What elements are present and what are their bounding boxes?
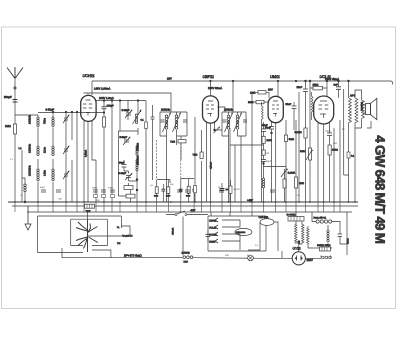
capacitor 50nF af: [292, 106, 297, 109]
ground arrow: [25, 206, 31, 230]
coil L2 130kHz: [37, 146, 39, 156]
svg-text:1MΩ: 1MΩ: [5, 125, 11, 128]
svg-text:150Ω: 150Ω: [332, 149, 338, 152]
trimmer AGC: [214, 127, 220, 133]
svg-text:2MΩ: 2MΩ: [248, 101, 253, 104]
wire osc column: [103, 101, 105, 203]
coil osc 1900kHz: [136, 160, 138, 171]
svg-text:3MΩ: 3MΩ: [289, 138, 294, 141]
IF transformer T2 frame: [222, 112, 246, 136]
resistor box af2: [262, 150, 265, 155]
svg-text:0,1MΩ: 0,1MΩ: [295, 131, 302, 134]
svg-text:214c: 214c: [44, 147, 47, 153]
wire right col: [295, 120, 297, 202]
trimmer IF2a: [223, 120, 227, 122]
wire HT rail: [92, 81, 345, 95]
svg-text:1MΩ: 1MΩ: [250, 91, 255, 94]
wire osc verticals: [112, 101, 138, 203]
resistor 1MΩ det: [258, 91, 266, 94]
wire 8nF column: [338, 81, 340, 98]
resistor 2MΩ af: [284, 135, 287, 142]
tube UM11 electrodes: [272, 101, 279, 117]
thermistor U1658: [260, 219, 274, 226]
tube UBF11 electrodes: [206, 101, 214, 117]
svg-text:1,5MHy: 1,5MHy: [182, 252, 191, 255]
wire UM11 top: [277, 81, 279, 97]
tube UCL11: [314, 96, 334, 124]
capacitor 50pF bottom: [124, 186, 133, 190]
svg-text:TM: TM: [117, 242, 120, 245]
heater UCL11: [215, 225, 218, 229]
node UBF11: [214, 129, 216, 131]
svg-text:D09: D09: [184, 261, 189, 264]
resistor vol low: [283, 179, 286, 188]
capacitor 50pF osc: [122, 165, 127, 168]
resistor 1MΩ right: [294, 177, 297, 188]
wire UBF11 pins: [207, 107, 226, 202]
coil IF1 secondary: [173, 113, 181, 132]
wire HT to right hook: [345, 81, 393, 85]
node antenna junction: [14, 87, 16, 89]
capacitor 25nF af: [303, 89, 308, 92]
trimmer Ct2: [63, 146, 69, 154]
wire heater internals: [222, 220, 278, 251]
wire coil column B: [52, 112, 54, 202]
node dots input: [52, 111, 54, 113]
capacitor row c3: [192, 189, 196, 191]
wire osc box frame: [118, 131, 138, 196]
svg-text:30Ω: 30Ω: [225, 254, 229, 257]
resistor zig UM left: [262, 106, 264, 119]
resistor mains A: [307, 228, 310, 244]
wire UCL11 pins: [318, 122, 330, 202]
svg-text:20V: 20V: [268, 89, 273, 92]
wire mains bottom: [305, 256, 330, 259]
trimmer 3-30pF: [125, 174, 132, 181]
wire osc internal: [124, 143, 137, 202]
svg-text:5000: 5000: [92, 187, 98, 190]
svg-text:200V 62mA: 200V 62mA: [208, 87, 222, 90]
value labels scatter: [10, 128, 345, 257]
winding field coil: [362, 100, 365, 119]
tube UBF11: [203, 96, 219, 123]
svg-text:UBF11: UBF11: [209, 220, 217, 223]
capacitor heater in: [205, 234, 210, 236]
svg-text:1MΩ: 1MΩ: [299, 182, 304, 185]
svg-text:-12V: -12V: [190, 209, 196, 212]
wire NF feedback: [344, 89, 349, 175]
svg-text:148c: 148c: [44, 170, 47, 176]
wire bus ground 2: [12, 205, 358, 207]
node af: [263, 163, 265, 165]
svg-text:100kΩ 280Ω: 100kΩ 280Ω: [317, 244, 331, 247]
wire UCH11 anode to IF1: [84, 93, 172, 112]
svg-text:145V 2,85mA: 145V 2,85mA: [94, 88, 110, 91]
capacitor 25nF out: [327, 133, 332, 136]
tube UM11: [268, 96, 283, 122]
tube UCH11: [81, 95, 96, 121]
choke 1.5MHy: [183, 256, 193, 259]
svg-text:240kHz: 240kHz: [29, 114, 32, 124]
wire bus crossings: [15, 202, 340, 212]
resistor antenna: [13, 124, 16, 134]
resistor 0.1MΩ af: [304, 128, 307, 138]
capacitor 100pF: [102, 107, 107, 109]
resistor row box3: [187, 186, 190, 193]
svg-text:UCH11: UCH11: [83, 74, 95, 78]
svg-text:50nF: 50nF: [265, 127, 271, 130]
antenna: [7, 67, 23, 79]
node bus dots: [14, 201, 356, 203]
capacitor col348: [347, 152, 350, 158]
wire out bias: [330, 120, 341, 202]
svg-text:UCL11: UCL11: [320, 75, 332, 79]
wire UM11 pins: [272, 121, 276, 202]
svg-text:5000: 5000: [154, 195, 158, 198]
svg-text:5000: 5000: [108, 187, 114, 190]
svg-text:750c: 750c: [44, 118, 47, 124]
svg-text:4,5mA: 4,5mA: [210, 162, 213, 169]
svg-text:Feld 5kΩ: Feld 5kΩ: [361, 101, 364, 111]
resistor 1MΩ af: [262, 136, 265, 143]
rectifier UY11: [292, 252, 305, 265]
coil L1 240kHz: [37, 117, 39, 127]
svg-text:100pF: 100pF: [107, 105, 115, 108]
trimmer IF2b: [243, 120, 247, 122]
wire IF2 connections: [222, 81, 246, 202]
capacitor af3: [261, 160, 266, 162]
wire coil column A: [37, 127, 39, 202]
wire bracket under speaker: [367, 121, 371, 128]
svg-text:130kHz: 130kHz: [29, 143, 32, 153]
capacitor col152: [151, 117, 155, 119]
wire band column: [72, 112, 77, 202]
svg-text:50nF: 50nF: [286, 103, 292, 106]
wire det link: [235, 145, 241, 202]
svg-text:3-30pF: 3-30pF: [119, 172, 127, 175]
resistor row box2: [167, 187, 170, 194]
wire switch link dashed: [157, 140, 181, 180]
wire bus ground 1: [8, 201, 358, 203]
svg-text:25nF: 25nF: [326, 130, 332, 133]
svg-text:UBF11: UBF11: [203, 75, 215, 79]
wire column La: [21, 150, 23, 202]
svg-text:8nF: 8nF: [334, 84, 339, 87]
junction blob power: [298, 241, 301, 244]
svg-text:LW: LW: [150, 184, 153, 187]
winding secondary: [355, 98, 358, 123]
svg-text:UCH11: UCH11: [209, 234, 217, 237]
coil mains C: [322, 256, 332, 259]
resistor out bias: [328, 145, 331, 155]
svg-text:Netz Ø3+Ω: Netz Ø3+Ω: [314, 217, 327, 220]
capacitor row c1: [162, 189, 166, 191]
svg-text:UM11: UM11: [209, 241, 216, 244]
wire mains net: [308, 212, 347, 255]
rectifier electrodes: [297, 256, 302, 261]
node osc dots: [103, 112, 105, 114]
resistor dropper B: [302, 224, 305, 243]
coil IF2 secondary: [234, 113, 242, 132]
svg-text:La: La: [19, 147, 22, 150]
svg-text:0,1: 0,1: [226, 188, 229, 191]
wire speaker link: [363, 105, 366, 113]
svg-text:UCL11: UCL11: [209, 227, 217, 230]
resistor TM2 on bus: [85, 204, 95, 208]
resistor dropper A: [295, 224, 298, 243]
wire dial links: [62, 212, 130, 258]
capacitor det left: [220, 189, 225, 191]
heater UCH11: [215, 232, 218, 236]
coil IF2 primary: [225, 113, 233, 132]
svg-text:TM2: TM2: [86, 210, 92, 213]
wire grid line input: [38, 112, 104, 114]
svg-text:50pF: 50pF: [266, 160, 272, 163]
wire power column: [296, 212, 302, 252]
trimmer IF1b: [183, 120, 187, 122]
svg-text:25nF: 25nF: [297, 86, 303, 89]
wire screen line 100V: [96, 100, 146, 102]
svg-text:2F+4T3 8mΩ: 2F+4T3 8mΩ: [124, 254, 142, 258]
wire af column: [230, 122, 264, 202]
coil mains B: [327, 230, 329, 242]
wire to input coils: [15, 115, 38, 117]
svg-text:15V: 15V: [167, 78, 172, 81]
wire detector links: [252, 92, 269, 202]
switch mains: [175, 214, 177, 216]
svg-text:100Ω: 100Ω: [347, 238, 350, 244]
wire switch down: [182, 217, 184, 256]
svg-text:0,5mA: 0,5mA: [85, 149, 88, 157]
node UM: [271, 132, 273, 134]
svg-text:0,1MΩ: 0,1MΩ: [288, 172, 296, 175]
coil osc variable: [133, 110, 142, 124]
svg-text:5000: 5000: [186, 195, 190, 198]
wire detector column: [195, 117, 202, 202]
wire antenna lead-in: [14, 79, 16, 202]
coil osc 750kHz: [136, 146, 138, 155]
wire 22k links: [310, 81, 327, 96]
coil af choke: [262, 178, 264, 188]
resistor zig UCL grid: [311, 96, 313, 112]
svg-text:400mA: 400mA: [172, 227, 175, 235]
svg-text:UM11: UM11: [270, 75, 280, 79]
node left: [24, 201, 26, 203]
heater block frame: [208, 216, 266, 251]
svg-text:1MΩ: 1MΩ: [266, 139, 271, 142]
resistor col146: [145, 122, 148, 129]
svg-text:5-50pF: 5-50pF: [120, 136, 128, 139]
svg-text:hr gut 14: hr gut 14: [123, 235, 133, 238]
capacitor 50nF af1: [261, 129, 266, 132]
wire UCH11 pins: [84, 120, 96, 202]
wire UBF11 anode: [210, 81, 212, 96]
capacitor 8nF: [336, 87, 341, 90]
trimmer Ct3: [63, 171, 69, 179]
wire rectifier left: [262, 251, 292, 258]
capacitor 50nF UM: [269, 127, 274, 130]
svg-text:U1560600: U1560600: [236, 231, 246, 234]
tube UCL11 electrodes: [319, 101, 329, 118]
mains choke: [316, 220, 332, 223]
wire transformer top: [349, 81, 362, 202]
svg-text:0,1MΩ: 0,1MΩ: [234, 188, 241, 191]
resistor box det left: [229, 186, 232, 193]
capacitor boxes above bus: [94, 195, 98, 198]
svg-text:MW: MW: [170, 183, 174, 186]
trimmer Ct1: [63, 115, 69, 123]
node osc2: [136, 179, 138, 181]
winding primary: [349, 98, 352, 123]
resistor 2MΩ det: [256, 100, 264, 103]
resistor TM2: [178, 140, 186, 143]
wire heater feeds: [211, 212, 252, 216]
svg-text:TM2: TM2: [170, 141, 176, 144]
trimmer 5-50pF: [125, 110, 132, 118]
wire IF1 down: [160, 112, 187, 202]
wire vol column: [264, 120, 287, 202]
dial lamp: [248, 255, 254, 261]
svg-text:UY11: UY11: [293, 247, 301, 251]
resistor box col195: [194, 186, 197, 193]
capacitor row above bus: [41, 190, 275, 192]
coil Lg left: [24, 184, 26, 192]
svg-text:22kΩ: 22kΩ: [313, 83, 319, 86]
svg-text:1MΩ: 1MΩ: [300, 150, 305, 153]
IF transformer T1 frame: [160, 112, 187, 136]
resistor Rosc: [102, 117, 105, 127]
node af2: [305, 80, 307, 82]
svg-text:50µF: 50µF: [40, 186, 46, 189]
svg-text:200kHz: 200kHz: [224, 109, 234, 112]
dial pointer butterfly: [76, 220, 98, 252]
resistor 100k mains: [320, 247, 331, 251]
svg-text:U16 5VA: U16 5VA: [259, 216, 269, 219]
barretter oval: [235, 228, 252, 235]
speaker: [366, 98, 377, 119]
svg-text:200kHz: 200kHz: [161, 109, 171, 112]
trimmer osc 5-50pF: [123, 137, 130, 145]
wire bus 3: [27, 211, 352, 213]
wire trimmer column: [65, 112, 67, 202]
svg-text:3×475Ω: 3×475Ω: [287, 214, 296, 217]
coil L3 1900kHz: [37, 169, 39, 181]
capacitor osc bottom2: [126, 194, 135, 198]
resistor row box1: [155, 187, 158, 194]
svg-text:4 GW 648 M/T 49 M: 4 GW 648 M/T 49 M: [373, 135, 388, 243]
resistor 22kΩ: [313, 86, 323, 90]
resistor barretter 3x475: [288, 217, 304, 222]
dial drive inner frame: [71, 219, 108, 245]
svg-text:1900kHz: 1900kHz: [29, 165, 32, 176]
svg-text:5-50pF: 5-50pF: [122, 109, 130, 112]
coil IF1 primary: [163, 113, 171, 132]
wire af columns: [294, 81, 310, 202]
svg-text:500pF: 500pF: [4, 96, 12, 99]
wire choke run: [111, 257, 262, 260]
svg-text:220V: 220V: [307, 259, 313, 262]
resistor TM3 column: [200, 152, 203, 159]
capacitor row c2: [179, 189, 183, 191]
tube UCH11 electrodes: [83, 100, 92, 116]
trimmer IF1a: [161, 120, 165, 122]
capacitor mains: [338, 234, 343, 237]
potentiometer volume: [281, 169, 288, 177]
svg-text:1kΩ: 1kΩ: [333, 142, 337, 145]
potentiometer 1MΩ: [308, 148, 311, 160]
wire switch columns: [146, 101, 194, 203]
capacitor antenna series: [13, 100, 18, 103]
heater UM11: [215, 239, 218, 243]
dial drive outer frame: [38, 216, 122, 252]
heater UBF11: [215, 218, 218, 222]
